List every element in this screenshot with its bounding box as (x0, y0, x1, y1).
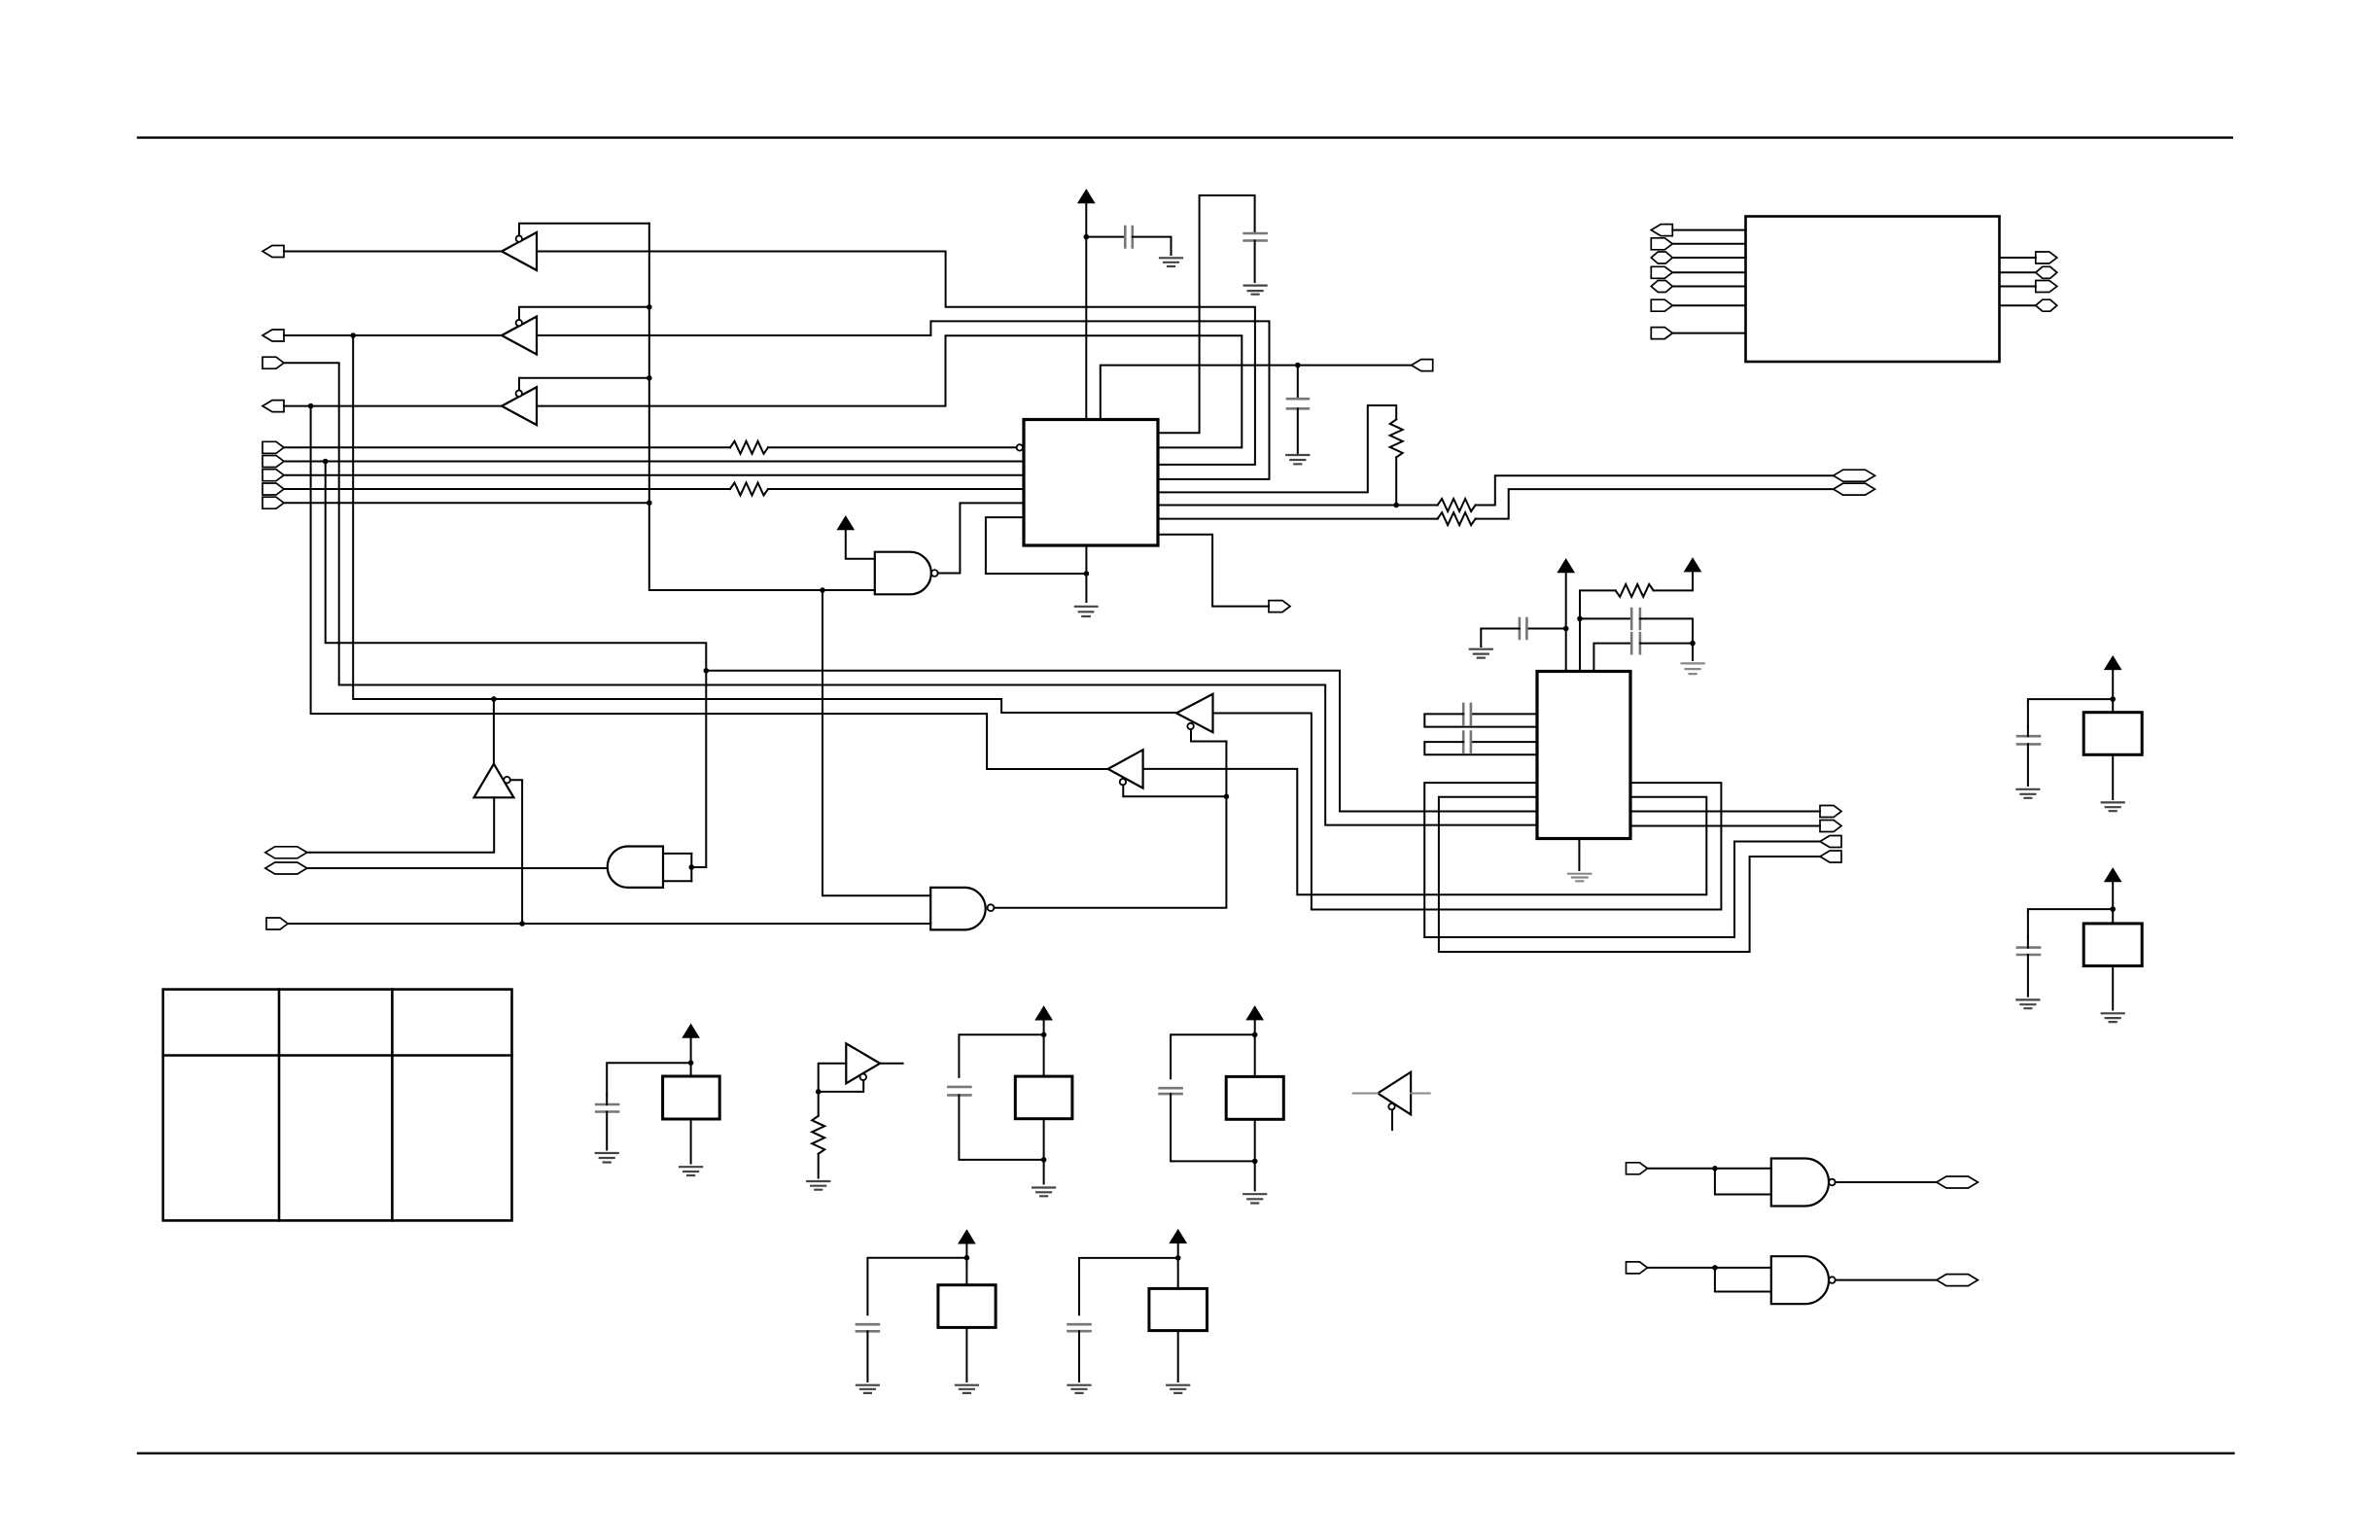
wire X2 node to C10 (2028, 909, 2113, 937)
junction node trunk/U4B (647, 304, 652, 310)
ground X1 (2102, 802, 2124, 811)
wire U1 pin6 to R4 (1158, 505, 1438, 507)
wire U5 output to hex connector (307, 867, 608, 869)
wire U10 output stub (1411, 1093, 1430, 1095)
bubble U4C enable (516, 391, 522, 397)
junction node U5 bracket (689, 864, 695, 870)
wire J6 to U1 (284, 461, 1024, 463)
wire J8 to resistor R2 (284, 488, 730, 490)
wire C4 to ground (1481, 629, 1520, 647)
wire VCC to U2 top (1565, 573, 1567, 672)
bubble U11A output (1829, 1179, 1836, 1186)
wire U9 output stub (880, 1063, 903, 1065)
junction node VR3 bottom (1252, 1159, 1258, 1165)
capacitor C9 (2017, 736, 2040, 744)
junction node enable/J9 (647, 500, 652, 506)
wire J14 to inverter U7 input (307, 797, 494, 853)
tri-state inverter U4C (502, 387, 537, 425)
wire bus2 branch down-around (326, 462, 707, 868)
oscillator module X2 (2083, 924, 2142, 966)
connector J35 bidir hex (1937, 1275, 1978, 1286)
wire J24 to U3 (1672, 271, 1745, 273)
power VCC arrow (U1 top) (1078, 191, 1094, 203)
pin bubble U1 (1017, 444, 1023, 450)
wire U2 xtal loop 1 (1471, 713, 1537, 715)
wire U1 pin1 to top loop (1158, 195, 1255, 433)
capacitor C1 (1125, 227, 1133, 248)
wire U10 enable stub (1391, 1109, 1393, 1130)
IC U3 (1746, 217, 2000, 363)
power VCC arrow (VR4) (959, 1231, 974, 1243)
tri-state buffer U8B (1108, 750, 1143, 787)
table column line 2 (391, 990, 394, 1221)
wire enable trunk vertical (649, 224, 875, 590)
connector J14 bidir hex (265, 847, 307, 858)
wire U9 node to R7 (818, 1092, 820, 1116)
connector J24 input pentagon (1651, 266, 1672, 278)
junction node VR1 (688, 1060, 694, 1066)
wire VR4 node to C14 (867, 1258, 966, 1315)
connector J1 output arrow (262, 246, 284, 258)
regulator VR1 (663, 1076, 720, 1119)
wire C6 to gnd node (1640, 643, 1693, 645)
junction node VR2 top (1041, 1032, 1047, 1038)
bubble U4B enable (516, 320, 522, 326)
junction node U9 (816, 1089, 822, 1095)
ground C14 (857, 1385, 879, 1393)
wire C5 to gnd node (1640, 618, 1693, 643)
wire VCC node to C4 (1526, 628, 1565, 630)
ground under U1 (1075, 607, 1098, 616)
wire U1 pin8 to output (1158, 535, 1269, 607)
capacitor C11 (596, 1104, 618, 1112)
junction node VR2 bottom (1041, 1157, 1047, 1163)
resistor R5 (1438, 512, 1476, 525)
wire U5 input bracket bottom (663, 880, 691, 882)
wire U4C enable to trunk (519, 378, 649, 391)
wire net J3 to U2 pin (284, 363, 1537, 824)
wire J27 to U3 (1672, 332, 1745, 334)
wire J5 to resistor R1 (284, 446, 730, 448)
wire X1 node to C9 (2028, 699, 2113, 726)
wire U3 to J29 (2000, 271, 2036, 273)
connector J26 input pentagon (1651, 299, 1672, 311)
resistor R2 (730, 483, 768, 496)
resistor R1 (730, 441, 768, 454)
wire R7 to ground (818, 1154, 820, 1178)
wire split to U2 pin (706, 671, 1537, 812)
bubble U7 output (504, 777, 510, 784)
connector J17 output pentagon (1820, 806, 1841, 818)
ground C1 (1160, 258, 1182, 266)
junction node VCC/C1 (1084, 234, 1090, 240)
wire J22 to U3 (1672, 243, 1745, 245)
power VCC arrow (VR5) (1171, 1230, 1186, 1242)
capacitor C5 (1631, 609, 1640, 629)
junction node trunk/U4C (647, 375, 652, 381)
IC U2 (1537, 672, 1630, 839)
wire R1 to U1 pin bubble (768, 446, 1016, 448)
wire C3 to ground (1254, 241, 1256, 283)
wire osc node to C5 (1580, 617, 1631, 619)
NAND gate U11B (1771, 1256, 1829, 1304)
wire VCC X2 (2112, 882, 2114, 924)
connector J33 bidir hex (1937, 1176, 1978, 1188)
wire J4 to U4C (284, 405, 502, 407)
connector J28 output pentagon (2036, 252, 2057, 263)
tri-state buffer U8A (1176, 694, 1213, 732)
wire VR2 node to C12 (959, 1034, 1043, 1077)
wire U4B enable to trunk (519, 307, 649, 320)
wire U5 input bracket top (663, 853, 691, 855)
wire U10 input stub (1353, 1093, 1378, 1095)
regulator VR3 (1226, 1076, 1283, 1119)
wire U7 apex to net P (493, 699, 495, 764)
wire J21 to U3 (1672, 229, 1745, 231)
capacitor C7 (1463, 704, 1471, 724)
table column line 1 (278, 990, 281, 1221)
wire U8B input loop to U2 (1143, 769, 1707, 894)
wire J1 to U4A (284, 251, 502, 253)
power VCC arrow (X2) (2105, 869, 2120, 882)
ground X2 (2102, 1013, 2124, 1022)
wire U1 pin7 to R5 (1158, 518, 1438, 520)
wire VR3 node to C13 (1171, 1034, 1255, 1078)
wire J9 to enable trunk (284, 502, 649, 504)
connector J12 bidir hex (1834, 470, 1875, 481)
resistor R4 (1438, 499, 1476, 511)
wire VR1 node to C11 (607, 1063, 690, 1095)
table header row line (163, 1054, 512, 1057)
wire J23 to U3 (1672, 257, 1745, 259)
ground C4 (1470, 649, 1492, 658)
wire U3 to J28 (2000, 257, 2036, 259)
wire U11B input2 (1715, 1268, 1771, 1292)
connector J2 output arrow (262, 330, 284, 341)
regulator VR2 (1015, 1076, 1072, 1119)
bubble U6B output (988, 904, 995, 911)
wire U2 bottom pin to ground (1578, 839, 1580, 871)
NAND gate U11A (1771, 1159, 1829, 1207)
capacitor C14 (857, 1324, 879, 1331)
junction node pin2/C2 (1295, 363, 1301, 368)
connector J25 bidir hex (1651, 281, 1672, 293)
ground VR2 (1032, 1188, 1055, 1197)
power VCC arrow (VR3) (1247, 1007, 1263, 1020)
wire U6B output to enable trunk (994, 742, 1226, 908)
wire X2 to ground (2112, 966, 2114, 1010)
capacitor C2 (1287, 399, 1309, 408)
junction node bus2 split (704, 668, 710, 674)
junction node VR5 (1175, 1255, 1181, 1261)
connector J21 output arrow (1651, 225, 1672, 236)
capacitor C15 (1068, 1324, 1091, 1331)
connector J15 bidir hex (265, 862, 307, 874)
resistor R6 (1616, 584, 1654, 597)
connector J22 input pentagon (1651, 238, 1672, 250)
ground C10 (2016, 999, 2039, 1008)
oscillator module X1 (2083, 713, 2142, 755)
connector J3 input pentagon (262, 357, 284, 368)
wire R4 to hex connector (1476, 475, 1834, 505)
wire C9 plates link (2027, 726, 2029, 786)
wire X1 to ground (2112, 754, 2114, 799)
wire VCC VR5 (1177, 1242, 1179, 1288)
wire R3 to pin6 line (1395, 457, 1397, 505)
tri-state inverter U4A (502, 232, 537, 270)
wire VCC node to C1 (1086, 236, 1125, 238)
wire osc gnd node down (1692, 644, 1694, 660)
junction node net P / U7 (491, 696, 497, 702)
resistor R3 (1390, 419, 1403, 457)
wire U2 left loop 1 to arrow (1424, 783, 1820, 937)
wire J32 to U11A (1648, 1168, 1771, 1170)
connector J4 output arrow (262, 401, 284, 412)
capacitor C10 (2017, 948, 2040, 955)
wire J34 to U11B (1648, 1267, 1771, 1269)
connector J19 output arrow (1820, 836, 1841, 848)
wire net U4C input loop (537, 335, 1242, 447)
wire U5 bracket vertical (690, 854, 692, 881)
NAND gate U6B (930, 888, 986, 930)
wire R5 to hex connector (1476, 489, 1834, 518)
wire U11B output to J35 (1836, 1279, 1937, 1281)
wire VR1 to ground (690, 1119, 692, 1164)
wire U11A input2 (1715, 1169, 1771, 1195)
wire U9 enable loop (819, 1080, 864, 1092)
junction node U11A inputs (1712, 1166, 1718, 1172)
bubble U8A enable (1187, 723, 1193, 729)
junction node R3/pin6 (1393, 503, 1399, 508)
wire net U4A input loop (537, 252, 1255, 465)
junction node J2 line (350, 332, 356, 338)
wire VR5 node to C15 (1079, 1258, 1178, 1314)
wire U7 bubble to NAND net (510, 780, 522, 924)
connector J31 bidir hex (2036, 299, 2057, 311)
connector J10 output arrow (1412, 360, 1433, 371)
power VCC arrow (VR2) (1036, 1007, 1052, 1020)
connector J18 output pentagon (1820, 821, 1841, 832)
ground C11 (596, 1153, 618, 1163)
junction node U2 VCC/C4 (1563, 626, 1569, 632)
wire U2 osc pin2 to C6 (1593, 644, 1631, 672)
inverter U7 (up) (474, 764, 514, 798)
wire U8A input loop to U2 (1213, 714, 1722, 910)
junction node U11B inputs (1712, 1265, 1718, 1271)
power VCC arrow (U2) (1558, 560, 1574, 573)
wire J26 to U3 (1672, 304, 1745, 306)
table revision block (163, 990, 512, 1221)
junction node osc (1577, 616, 1583, 622)
wire C8 to loop return (1424, 742, 1537, 754)
capacitor C13 (1160, 1088, 1182, 1094)
wire VCC to U1 top pin (1085, 203, 1087, 420)
ground C15 (1068, 1385, 1091, 1393)
junction node VR3 top (1252, 1032, 1258, 1038)
wire C14 to ground (866, 1331, 868, 1382)
junction node VR4 (964, 1255, 970, 1261)
capacitor C4 (1520, 618, 1527, 639)
wire U8B enable to trunk (1123, 785, 1226, 796)
wire VR5 to ground (1177, 1331, 1179, 1382)
capacitor C3 (1244, 233, 1267, 241)
junction node bus2 (323, 459, 329, 465)
wire C7 to loop return (1424, 714, 1537, 726)
wire VCC VR3 (1254, 1020, 1256, 1077)
ground C9 (2016, 789, 2039, 798)
bubble U8B enable (1120, 779, 1126, 785)
wire U3 to J31 (2000, 304, 2036, 306)
junction node X1 (2110, 696, 2116, 702)
ground VR4 (956, 1385, 978, 1393)
wire C2 upper (1297, 366, 1299, 399)
wire J2 to U4B (284, 334, 502, 336)
connector J34 input pentagon (1627, 1262, 1648, 1274)
tri-state inverter U4B (502, 317, 537, 355)
wire VCC X1 (2112, 669, 2114, 712)
tri-state buffer U10 (1378, 1072, 1411, 1115)
wire U9 input (819, 1064, 847, 1092)
wire U11A output to J33 (1836, 1181, 1937, 1183)
NAND gate U6A (875, 552, 931, 595)
connector J6 input pentagon (262, 456, 284, 468)
connector J23 bidir hex (1651, 252, 1672, 263)
connector J8 input pentagon (262, 483, 284, 495)
wire C15 to ground (1078, 1331, 1080, 1382)
wire J7 to U1 (284, 474, 1024, 476)
wire U1 top pin2 to arrow (1101, 366, 1412, 420)
wire VCC VR1 (690, 1037, 692, 1076)
wire R6 to U2 osc pin (1580, 590, 1616, 671)
connector J32 input pentagon (1627, 1163, 1648, 1174)
border top rule (138, 136, 2232, 138)
wire U1 pin to ground net (986, 517, 1087, 574)
wire C13 to bottom node (1171, 1094, 1255, 1161)
wire VCC VR4 (965, 1243, 967, 1285)
connector J30 output pentagon (2036, 281, 2057, 293)
wire U4A enable to trunk (519, 224, 649, 236)
border bottom rule (138, 1452, 2233, 1454)
junction node osc gnd (1690, 641, 1696, 647)
junction node J4 line (308, 403, 314, 409)
junction node U6B input net (519, 921, 525, 927)
junction node X2 (2110, 906, 2116, 912)
power VCC arrow (VR1) (683, 1025, 699, 1037)
IC U1 (1024, 420, 1158, 546)
ground C3 (1244, 286, 1267, 295)
wire branch to U6B input (822, 590, 930, 895)
wire R2 to U1 (768, 488, 1024, 490)
wire VR4 to ground (965, 1327, 967, 1382)
wire U2 left loop 2 to arrow (1439, 797, 1820, 952)
bubble U11B output (1829, 1277, 1836, 1283)
wire VCC VR2 (1043, 1020, 1045, 1076)
wire C2 to ground (1297, 408, 1299, 453)
wire U1 pin5 to R3 bracket (1158, 405, 1396, 492)
connector J13 bidir hex (1834, 483, 1875, 495)
regulator VR4 (938, 1285, 996, 1328)
connector J16 input pentagon (266, 918, 288, 929)
ground C2 (1286, 455, 1309, 464)
tri-state buffer U9 (846, 1043, 880, 1083)
junction node U1 gnd (1084, 571, 1090, 577)
bubble U6A output (931, 570, 938, 577)
wire U8A enable to trunk (1191, 729, 1226, 741)
wire U2 right pin to J17 (1630, 811, 1820, 813)
AND gate U5 (mirrored) (608, 847, 663, 888)
ground VR3 (1243, 1194, 1266, 1203)
junction node trunk/U8B enable (1224, 794, 1230, 800)
wire VR2 bottom (1043, 1119, 1045, 1184)
ground VR5 (1167, 1385, 1189, 1393)
ground VR1 (680, 1167, 702, 1175)
capacitor C8 (1463, 732, 1471, 752)
connector J5 input pentagon (262, 441, 284, 453)
connector J7 input pentagon (262, 470, 284, 481)
power VCC arrow (oscillator) (1685, 559, 1700, 572)
connector J9 input pentagon (262, 497, 284, 508)
resistor R7 (812, 1116, 824, 1154)
wire J16 to U6B input2 (288, 923, 930, 925)
connector J27 input pentagon (1651, 328, 1672, 339)
ground R7 (807, 1181, 829, 1190)
power VCC arrow (NAND U6A) (838, 517, 854, 530)
bubble U4A enable (516, 235, 522, 241)
ground oscillator (1682, 663, 1704, 674)
junction node trunk/NAND branch (820, 587, 825, 593)
wire U6A output to U1 (938, 503, 1024, 573)
wire net Q (J4 to buffer U8B) (311, 406, 1108, 769)
capacitor C6 (1631, 633, 1640, 653)
power VCC arrow (X1) (2105, 656, 2120, 669)
wire C10 to ground (2027, 937, 2029, 996)
ground U2 (1568, 874, 1591, 882)
connector J20 output arrow (1820, 851, 1841, 862)
wire net U4B input loop (537, 321, 1270, 479)
wire U3 to J30 (2000, 286, 2036, 288)
connector J29 bidir hex (2036, 266, 2057, 278)
regulator VR5 (1149, 1288, 1207, 1330)
wire VR3 bottom (1254, 1119, 1256, 1190)
wire net P (J2 to buffer U8A) (353, 335, 1176, 713)
capacitor C12 (948, 1087, 970, 1096)
bubble U10 enable (1388, 1103, 1394, 1109)
wire J25 to U3 (1672, 286, 1745, 288)
wire C12 to bottom node (959, 1095, 1043, 1160)
wire U2 xtal loop 2 (1471, 741, 1537, 743)
wire VCC to U6A input1 (846, 530, 875, 559)
connector J11 output pentagon (1269, 601, 1290, 612)
wire C1 to ground (1133, 237, 1172, 255)
wire U1 bottom pin to ground (1085, 545, 1087, 602)
wire VCC to R6 (1654, 572, 1693, 591)
bubble U9 enable (860, 1074, 867, 1081)
wire U2 right pin to J18 (1630, 825, 1820, 827)
wire C11 plates/ground (606, 1095, 608, 1150)
